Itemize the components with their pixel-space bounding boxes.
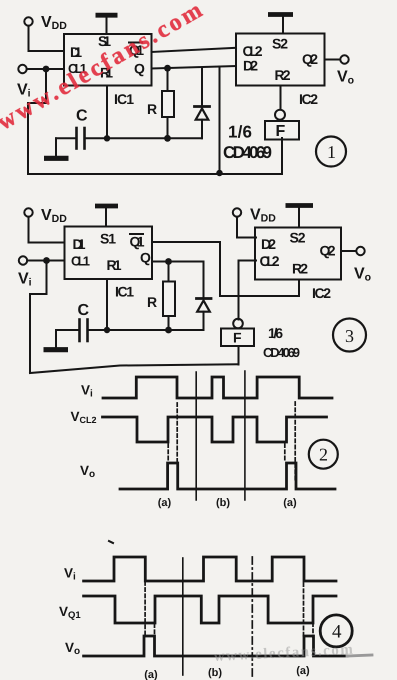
svg-text:R2: R2 xyxy=(275,67,291,83)
svg-text:D2: D2 xyxy=(243,58,258,74)
svg-text:1: 1 xyxy=(327,142,336,162)
svg-text:1/6: 1/6 xyxy=(228,123,252,142)
svg-text:IC2: IC2 xyxy=(299,91,318,107)
svg-text:S2: S2 xyxy=(272,36,288,52)
svg-text:R2: R2 xyxy=(292,261,308,277)
svg-text:C: C xyxy=(76,108,88,125)
svg-text:Q: Q xyxy=(140,250,151,266)
svg-text:D2: D2 xyxy=(261,236,276,252)
svg-text:CL1: CL1 xyxy=(71,254,90,269)
svg-text:CD4069: CD4069 xyxy=(263,345,300,360)
svg-text:CL2: CL2 xyxy=(260,253,280,269)
svg-text:C: C xyxy=(78,302,90,319)
svg-text:IC1: IC1 xyxy=(114,91,134,107)
svg-text:(a): (a) xyxy=(144,669,158,680)
svg-text:Q1: Q1 xyxy=(130,234,145,250)
svg-text:R: R xyxy=(147,101,157,117)
svg-text:(a): (a) xyxy=(158,497,172,509)
svg-text:D1: D1 xyxy=(73,236,86,252)
svg-text:(b): (b) xyxy=(216,497,230,509)
svg-text:Q2: Q2 xyxy=(302,51,318,67)
svg-text:3: 3 xyxy=(345,326,354,346)
svg-text:R1: R1 xyxy=(107,257,122,273)
svg-text:(a): (a) xyxy=(283,497,297,509)
svg-text:F: F xyxy=(233,330,242,346)
svg-text:R: R xyxy=(147,294,157,310)
svg-text:F: F xyxy=(276,123,286,140)
svg-text:D1: D1 xyxy=(70,44,82,60)
svg-text:IC1: IC1 xyxy=(115,284,134,300)
svg-text:(b): (b) xyxy=(208,667,222,679)
svg-text:IC2: IC2 xyxy=(312,285,331,301)
svg-text:S2: S2 xyxy=(290,230,306,246)
svg-text:(a): (a) xyxy=(296,665,310,677)
svg-text:CD4069: CD4069 xyxy=(223,143,272,162)
svg-text:Q: Q xyxy=(134,61,145,77)
svg-text:4: 4 xyxy=(332,622,342,643)
svg-text:2: 2 xyxy=(319,445,328,465)
svg-text:1/6: 1/6 xyxy=(268,325,283,341)
svg-text:S1: S1 xyxy=(100,231,116,247)
svg-text:Q2: Q2 xyxy=(320,243,336,259)
